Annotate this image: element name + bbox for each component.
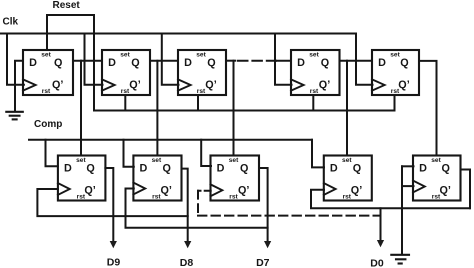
svg-text:rst: rst [391,88,400,95]
svg-text:set: set [342,157,352,164]
wire U6 clock feed from D8 line [37,189,187,216]
svg-text:set: set [309,51,319,58]
svg-text:rst: rst [152,194,161,201]
wire FF3 Q stub [226,60,235,62]
svg-text:Q: Q [353,162,361,174]
arrow D0 [377,240,384,247]
wire Clk drop to FF1 clock [7,34,24,85]
svg-text:Comp: Comp [34,119,62,130]
wire branch node to U7 set [156,61,158,156]
wire Clk bus [0,33,356,35]
wire U6 Q to D9 [105,168,113,242]
svg-text:rst: rst [121,88,130,95]
wire rst stub FF3 [197,95,199,111]
arrow D8 [184,241,191,248]
svg-text:set: set [41,51,51,58]
wire FF1 D to ground [15,61,23,112]
flip-flop U7 [133,156,181,201]
wire dashed U8 clock vertical [197,191,199,216]
svg-text:Q: Q [54,57,62,69]
svg-text:rst: rst [197,88,206,95]
flip-flop U8 [211,156,260,201]
wire Clk drop to FF3 clock [162,34,179,85]
svg-text:set: set [229,157,239,164]
wire Clk drop to FF4 clock [275,34,292,85]
ground under FF1 D [6,112,23,120]
wire FF2 Q to FF3 D [150,60,178,62]
wire U8 Q to D7 [259,168,268,242]
wire FF5 Q to U10 set [419,61,437,156]
flip-flop U6 [58,156,106,201]
wire U10 D and clock tie [401,166,403,254]
wire branch node to U8 set [233,61,235,156]
svg-text:D0: D0 [370,257,384,268]
wire FF4 Q to FF5 D [340,60,373,62]
svg-text:D: D [217,162,225,174]
wire branch node to U6 set [80,61,82,156]
wire Comp drop to U6 D [46,140,58,167]
svg-text:set: set [196,51,206,58]
flip-flop U10 [413,156,461,201]
svg-text:D: D [297,57,305,69]
svg-text:Reset: Reset [53,0,81,11]
wire rst stub FF4 [312,95,314,111]
svg-text:D7: D7 [256,257,270,268]
flip-flop U1 [23,50,73,95]
svg-text:D: D [139,162,147,174]
svg-text:Q’: Q’ [84,185,95,197]
svg-text:Q: Q [240,162,248,174]
svg-text:D: D [64,162,72,174]
wire Comp drop to U8 D [201,140,211,166]
svg-text:D8: D8 [180,257,194,268]
svg-text:Q: Q [86,162,94,174]
svg-text:D: D [29,57,37,69]
svg-text:rst: rst [310,88,319,95]
svg-text:rst: rst [229,194,238,201]
svg-text:Q’: Q’ [398,79,409,91]
arrow D7 [264,241,271,248]
svg-text:set: set [76,157,86,164]
svg-text:Q: Q [321,57,329,69]
flip-flop U5 [372,50,419,95]
svg-text:D: D [184,57,192,69]
wire rst stub FF5 [394,95,396,111]
svg-text:rst: rst [343,194,352,201]
svg-text:Clk: Clk [3,17,19,28]
ground at U10 [391,255,409,264]
wire D0 drop [380,208,382,241]
svg-text:rst: rst [77,194,86,201]
wire U10 D stub [402,165,414,167]
svg-text:Q’: Q’ [351,185,362,197]
flip-flop U4 [291,50,340,95]
wire U7 Q to D8 [182,169,188,242]
svg-text:set: set [431,157,441,164]
flip-flop U3 [178,50,226,95]
wire Comp bus [29,139,312,141]
wire Reset loop top [47,15,94,50]
svg-text:Q: Q [207,57,215,69]
svg-text:Q’: Q’ [439,185,450,197]
svg-text:rst: rst [432,194,441,201]
wire U7 clock feed from D7 line [126,189,268,228]
svg-text:Q’: Q’ [238,185,249,197]
wire U9 clock feed from D0 rail [311,190,470,209]
flip-flop U2 [102,50,150,95]
svg-text:D: D [378,57,386,69]
svg-text:set: set [390,51,400,58]
arrow D9 [110,241,117,248]
svg-text:Q: Q [131,57,139,69]
svg-text:Q’: Q’ [52,79,63,91]
wire Reset vertical to rst rail [93,15,95,111]
wire rst stub FF2 [124,95,126,111]
wire dashed U8 clock stub [198,190,211,192]
svg-text:Q’: Q’ [160,185,171,197]
svg-text:D9: D9 [107,256,121,268]
svg-text:Q’: Q’ [319,79,330,91]
wire U10 clock stub [402,185,414,187]
wire Comp drop to U9 D [312,140,324,168]
svg-text:D: D [330,162,338,174]
svg-text:Q’: Q’ [205,79,216,91]
wire U10 Q to rail [461,170,471,209]
wire Clk drop to FF2 clock [85,34,103,85]
svg-text:Q: Q [162,162,170,174]
svg-text:Q: Q [400,57,408,69]
wire Reset rst rail [94,110,395,112]
svg-text:Q: Q [441,162,449,174]
svg-text:D: D [419,162,427,174]
svg-text:rst: rst [42,88,51,95]
svg-text:set: set [152,157,162,164]
wire dashed rail [198,215,381,217]
svg-text:D: D [108,57,116,69]
wire Comp drop to U7 D [124,140,134,167]
wire dashed Q chain continuation [238,60,276,62]
wire to FF4 D [276,60,291,62]
wire branch node to U9 set [346,61,348,156]
flip-flop U9 [324,156,372,201]
wire FF1 Q to FF2 D [73,60,102,62]
svg-text:Q’: Q’ [129,79,140,91]
wire Clk drop to FF5 clock [356,34,373,85]
svg-text:set: set [120,51,130,58]
